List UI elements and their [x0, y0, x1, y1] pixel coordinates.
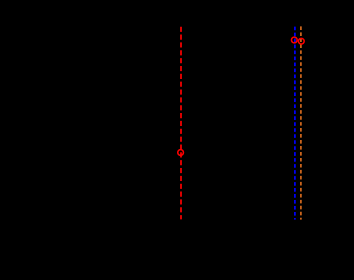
red circle marker on red line — [178, 150, 184, 156]
blue dashed vertical line — [294, 27, 296, 220]
red dashed vertical line — [180, 27, 182, 220]
red circle marker on orange line — [298, 38, 304, 44]
orange dashed vertical line — [300, 26, 302, 219]
red circle marker on blue line — [291, 37, 297, 43]
